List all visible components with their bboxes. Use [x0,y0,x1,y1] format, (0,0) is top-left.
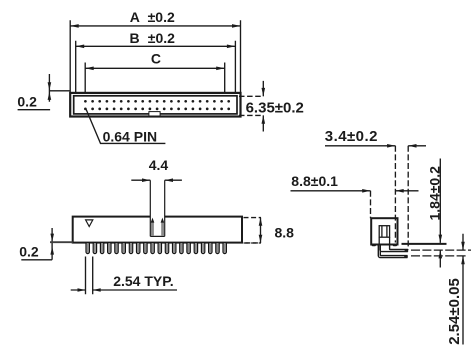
svg-text:3.4±0.2: 3.4±0.2 [325,128,378,145]
side view lower pin tail [378,244,408,258]
svg-text:0.2: 0.2 [17,94,37,110]
dimension C line [85,67,225,69]
center slot opening [150,180,164,236]
dimension 0.2 bottom-left leader [21,228,52,260]
dimension A line [70,25,240,27]
svg-text:4.4: 4.4 [149,157,169,173]
dimension B arrowheads [76,45,236,49]
svg-text:B: B [130,30,140,46]
dimension 4.4 line [131,179,182,181]
extension line housing left edge [370,191,372,218]
dimension B extension lines [76,41,236,93]
svg-text:±0.2: ±0.2 [148,30,175,46]
dimension C arrowheads [85,67,225,71]
0.64 PIN leader line [86,110,165,144]
seating plane reference line [402,243,447,245]
dimension 2.54±0.05 line [462,234,464,345]
pin-1 triangle marker [86,220,93,227]
dimension 1.84 line [439,159,441,268]
dimension A extension lines [70,20,240,93]
svg-text:8.8±0.1: 8.8±0.1 [291,173,338,189]
top view outer shell [70,93,240,117]
extension line pin tip [407,146,409,250]
pin top reference line [411,249,471,251]
dimension 0.2 top-left leader [18,74,71,110]
svg-text:2.54 TYP.: 2.54 TYP. [113,273,173,289]
pin contact dots row 2 [84,108,230,111]
svg-text:2.54±0.05: 2.54±0.05 [446,278,463,345]
dimension C extension lines [85,63,225,94]
dimension A arrowheads [70,24,240,28]
front view pins [87,243,226,253]
svg-text:C: C [151,51,161,67]
top view inner shell [74,96,237,114]
dimension 8.8 line [260,218,262,243]
svg-text:8.8: 8.8 [275,225,295,241]
dimension 4.4 arrowheads [142,178,173,182]
dimension 6.35 extension dashes [239,96,263,115]
svg-text:A: A [130,9,140,25]
dimension 8.8 arrowheads [259,218,263,243]
side view pin channel [379,226,389,245]
side view upper pin tail [380,244,408,252]
pin bottom reference line [411,255,466,257]
body bottom dashes right [245,242,258,244]
dimension B line [76,45,236,47]
dimension 8.8±0.1 arrowheads [362,189,403,193]
dimension 8.8 bracket dashes [244,218,262,243]
slot inner walls [151,218,165,236]
dimension 1.84 arrowheads [439,235,443,259]
svg-text:0.64 PIN: 0.64 PIN [103,129,157,145]
dimension 2.54 arrowheads [78,288,101,292]
label B ±0.2 [130,30,176,46]
svg-text:6.35±0.2: 6.35±0.2 [246,99,304,116]
dimension 6.35 line [262,81,264,132]
dimension 0.2 top-left arrowheads [48,82,52,100]
dimension 6.35 arrowheads [262,88,266,124]
side view standoff feet [372,244,398,246]
dimension 3.4 line [325,145,426,147]
dimension 3.4 arrowheads [387,144,416,148]
extension line housing right edge [394,146,396,243]
dimension 2.54±0.05 arrowheads [461,242,465,264]
dimension 0.2 bottom-left arrowheads [50,234,54,255]
polarizing key notch [149,112,160,116]
svg-text:1.84±0.2: 1.84±0.2 [426,166,442,221]
pin contact dots row 1 [84,100,230,103]
side view housing square [371,218,397,244]
dimension 8.8±0.1 line [291,190,419,192]
dimension 2.54 extension lines [86,257,93,295]
svg-text:0.2: 0.2 [19,243,39,259]
front view body [73,217,242,243]
svg-text:±0.2: ±0.2 [148,9,175,25]
label A ±0.2 [130,9,175,25]
dimension 2.54 line [71,289,177,291]
